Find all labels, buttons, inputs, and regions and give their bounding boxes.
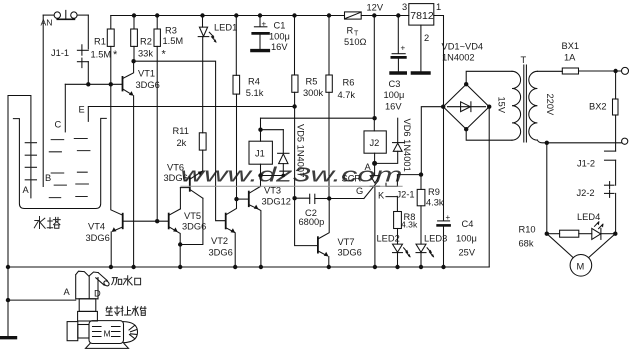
node VT4 VT5 base	[155, 219, 159, 223]
arrow VT7 emitter	[324, 252, 329, 257]
svg-text:510Ω: 510Ω	[344, 37, 367, 47]
svg-text:BX2: BX2	[589, 102, 607, 112]
node SCR anode A	[372, 161, 377, 166]
regulator U 7812	[409, 4, 434, 26]
svg-text:R11: R11	[173, 126, 189, 136]
resistor R6	[328, 16, 330, 76]
transistor VT2	[225, 214, 227, 229]
LED LED4	[601, 233, 615, 235]
thyristor SCR	[374, 163, 376, 175]
svg-text:3DG6: 3DG6	[136, 80, 160, 90]
svg-text:LED2: LED2	[377, 234, 400, 244]
svg-text:4.3k: 4.3k	[426, 198, 444, 208]
svg-text:R2: R2	[140, 37, 152, 47]
svg-text:7812: 7812	[410, 10, 434, 22]
wire ground rail	[8, 266, 489, 268]
relay contact J1-2	[615, 143, 617, 151]
node R2 bottom	[131, 59, 135, 63]
wire E-line sense net	[88, 107, 294, 122]
node bridge corners	[464, 82, 468, 86]
transistor VT3	[237, 198, 249, 200]
relay contact J2-1	[386, 175, 421, 187]
relay contact J2-2	[605, 184, 615, 186]
diode VD6	[397, 118, 399, 142]
svg-text:T: T	[521, 55, 527, 65]
wire top rail right of RT	[361, 15, 409, 17]
svg-text:K: K	[378, 191, 385, 201]
junction dots top rail	[132, 13, 136, 17]
node C2 left	[292, 196, 296, 200]
relay contact J1-1	[87, 15, 89, 49]
pump gearbox	[67, 322, 78, 341]
arrow LED3 rays	[429, 250, 432, 254]
svg-text:LED3: LED3	[424, 234, 447, 244]
wire J1 top to 12V line	[261, 117, 375, 119]
arrow VT4 emitter	[112, 227, 117, 232]
transistor VT7	[317, 237, 319, 252]
svg-text:100μ: 100μ	[384, 90, 405, 100]
thermistor RT	[345, 12, 362, 19]
resistor R1	[110, 16, 112, 30]
svg-text:3: 3	[402, 2, 407, 12]
fuse BX2	[615, 71, 617, 99]
transformer T primary winding	[529, 71, 538, 140]
arrow VT2 emitter	[231, 228, 236, 233]
svg-text:R5: R5	[306, 77, 318, 87]
svg-text:6800p: 6800p	[299, 217, 325, 227]
svg-text:68k: 68k	[519, 239, 534, 249]
svg-text:VD6 1N4001: VD6 1N4001	[402, 119, 412, 172]
wire primary top to fuse BX1	[537, 70, 562, 72]
node rectifier plus	[441, 105, 445, 109]
transistor VT4	[111, 84, 123, 215]
relay coil J1	[249, 141, 272, 164]
arrow LED2 rays	[406, 250, 409, 254]
node motor line dots	[545, 141, 549, 145]
motor M	[570, 254, 592, 276]
transistor VT1	[122, 77, 124, 91]
wire bridge top to secondary	[466, 71, 512, 84]
svg-text:R10: R10	[519, 225, 536, 235]
node J1 top	[258, 128, 262, 132]
wire left bus to pipe A	[8, 299, 76, 301]
ground under C3	[391, 71, 405, 74]
ground under 7812 pin2	[412, 71, 429, 74]
svg-text:1N4002: 1N4002	[442, 53, 475, 63]
svg-text:VT5: VT5	[184, 211, 201, 221]
svg-text:R: R	[347, 26, 354, 36]
wire top +12V rail left	[111, 15, 345, 17]
svg-text:R4: R4	[248, 77, 260, 87]
svg-text:J2: J2	[370, 138, 380, 148]
svg-text:*: *	[162, 49, 167, 61]
svg-text:3DG6: 3DG6	[209, 248, 233, 258]
wire electrode B from AN	[42, 15, 44, 186]
water level dashes	[49, 139, 90, 198]
arrow VT5 emitter	[173, 227, 178, 232]
svg-text:3DG6: 3DG6	[182, 222, 206, 232]
wire electrode A with riser	[8, 96, 31, 337]
svg-text:16V: 16V	[271, 42, 288, 52]
transformer core	[523, 65, 525, 142]
arrow LED1 rays	[212, 35, 215, 39]
node J2 top	[372, 116, 376, 120]
pushbutton AN	[54, 12, 60, 18]
svg-text:R1: R1	[94, 37, 106, 47]
wire R5 column to VT7 base	[295, 198, 318, 245]
arrow VT6 emitter	[198, 171, 203, 176]
terminal circle top	[622, 67, 629, 74]
LED LED3	[416, 244, 426, 252]
resistor R3	[156, 16, 158, 30]
svg-text:300k: 300k	[303, 88, 324, 98]
node E-line at R5	[292, 104, 296, 108]
svg-text:J1: J1	[255, 149, 265, 159]
svg-text:J1-2: J1-2	[577, 159, 595, 169]
capacitor C3	[397, 16, 399, 54]
funnel water inlet	[76, 271, 99, 299]
node R9 top	[419, 172, 423, 176]
arrow VT3 emitter	[254, 205, 259, 210]
svg-text:D: D	[94, 289, 101, 299]
svg-text:M: M	[577, 262, 585, 272]
svg-text:100μ: 100μ	[269, 32, 290, 42]
resistor R5	[294, 16, 296, 76]
resistor R8	[394, 212, 402, 229]
svg-text:100μ: 100μ	[456, 234, 477, 244]
capacitor C2	[295, 197, 310, 199]
svg-text:J2-2: J2-2	[577, 188, 595, 198]
svg-text:VD1~VD4: VD1~VD4	[442, 42, 484, 52]
svg-text:C1: C1	[274, 21, 286, 31]
svg-text:4.7k: 4.7k	[338, 90, 356, 100]
svg-text:A: A	[64, 287, 71, 297]
wire bridge bottom to secondary	[466, 129, 512, 140]
wire rectifier plus to R9	[421, 107, 443, 175]
svg-text:BX1: BX1	[562, 41, 580, 51]
ground bar bottom-left	[1, 336, 16, 339]
svg-text:LED4: LED4	[577, 212, 600, 222]
svg-text:R3: R3	[165, 26, 177, 36]
svg-text:VT1: VT1	[138, 69, 155, 79]
resistor R10	[560, 230, 579, 237]
wire BX1 to terminal 1	[579, 70, 622, 72]
svg-text:5.1k: 5.1k	[246, 88, 264, 98]
node J1 bottom	[258, 173, 262, 177]
transistor VT6	[191, 171, 203, 179]
transformer T secondary winding	[512, 71, 521, 140]
svg-text:3DG6: 3DG6	[86, 233, 110, 243]
pump base	[86, 344, 129, 349]
node C-line dots	[86, 82, 90, 86]
wire 7812 pin1 to rectifier plus	[434, 16, 444, 107]
pipe collar	[79, 299, 96, 312]
label cjk shuita	[34, 217, 45, 229]
wire R2 bottom to VT2 base	[134, 61, 226, 221]
water tank	[13, 118, 106, 208]
svg-text:B: B	[45, 173, 51, 183]
svg-text:E: E	[79, 105, 85, 115]
resistor R4	[235, 16, 237, 76]
svg-text:+: +	[446, 213, 451, 222]
wire electrode C drop	[64, 84, 66, 132]
svg-text:1.5M: 1.5M	[91, 50, 112, 60]
resistor R11	[199, 133, 206, 150]
svg-text:12V: 12V	[367, 3, 384, 13]
svg-text:15V: 15V	[497, 97, 507, 114]
svg-text:C: C	[55, 120, 62, 130]
diode VD5	[261, 129, 284, 131]
svg-text:33k: 33k	[138, 49, 153, 59]
svg-text:3DG6: 3DG6	[338, 248, 362, 258]
svg-text:G: G	[356, 186, 363, 196]
resistor R2	[133, 16, 135, 30]
pump fan cap	[124, 322, 138, 343]
svg-text:AN: AN	[41, 18, 53, 28]
svg-text:VT4: VT4	[88, 222, 105, 232]
node VT5 emitter	[178, 242, 182, 246]
svg-text:4.3k: 4.3k	[401, 220, 418, 230]
terminal circle bottom	[622, 138, 628, 144]
svg-text:A: A	[23, 185, 30, 195]
LED LED2	[393, 244, 403, 252]
pump motor body	[89, 321, 124, 344]
fuse BX1	[562, 68, 578, 74]
svg-text:VT3: VT3	[264, 186, 281, 196]
svg-text:VT2: VT2	[211, 236, 228, 246]
svg-text:1A: 1A	[564, 53, 576, 63]
svg-text:2k: 2k	[177, 138, 187, 148]
label cjk jiashuikou	[112, 278, 122, 285]
svg-text:LED1: LED1	[214, 23, 237, 33]
wire C-line electrode C net	[65, 83, 122, 85]
watermark underline	[181, 185, 402, 187]
capacitor C1	[259, 16, 261, 27]
label cjk suliao shangshuiguan	[106, 307, 112, 316]
ground under C1	[252, 49, 269, 52]
wire 7812 pin2 to ground	[420, 25, 422, 71]
svg-text:220V: 220V	[545, 94, 555, 117]
svg-text:R9: R9	[428, 187, 440, 197]
node C2 right gate	[327, 196, 331, 200]
node left bus dots	[6, 298, 10, 302]
svg-text:M: M	[104, 329, 111, 339]
LED LED1	[202, 16, 204, 28]
svg-text:1: 1	[436, 2, 441, 12]
transistor VT5	[179, 188, 181, 209]
resistor R9	[420, 175, 422, 190]
svg-text:1.5M: 1.5M	[163, 36, 184, 46]
svg-text:VT7: VT7	[338, 237, 355, 247]
node VT2 collector R4	[234, 197, 238, 201]
svg-text:C4: C4	[462, 219, 474, 229]
wire rectifier minus column	[488, 107, 490, 267]
svg-text:*: *	[113, 49, 118, 61]
pipe flange	[78, 311, 98, 321]
wire primary bottom to terminal 2	[537, 140, 621, 143]
svg-text:www.dz3w.com: www.dz3w.com	[181, 164, 403, 187]
svg-text:2: 2	[424, 33, 429, 43]
wire J1 bottom link to VD5 anode	[261, 175, 284, 177]
wire gate line	[329, 198, 364, 200]
svg-text:+: +	[401, 44, 406, 53]
rectifier bridge VD1~VD4	[443, 84, 489, 129]
wire VT5 emitter node to rail	[179, 245, 181, 268]
electrode A level ticks	[25, 143, 36, 180]
svg-text:C3: C3	[389, 79, 401, 89]
wire primary bottom node down	[546, 143, 548, 234]
svg-text:J2-1: J2-1	[397, 190, 415, 200]
arrow LED4 rays	[597, 221, 600, 225]
capacitor C4	[443, 107, 445, 221]
svg-text:16V: 16V	[385, 102, 402, 112]
arrow VT1 emitter	[129, 91, 134, 96]
svg-text:J1-1: J1-1	[51, 48, 69, 58]
node ground rail dots	[6, 265, 10, 269]
svg-text:R6: R6	[343, 78, 355, 88]
svg-text:25V: 25V	[459, 248, 476, 258]
svg-text:3DG12: 3DG12	[262, 197, 291, 207]
node mains terminal	[613, 69, 617, 73]
wire 12V node to regulator input	[373, 16, 375, 131]
relay coil J2	[364, 131, 386, 153]
svg-text:+: +	[262, 20, 267, 29]
